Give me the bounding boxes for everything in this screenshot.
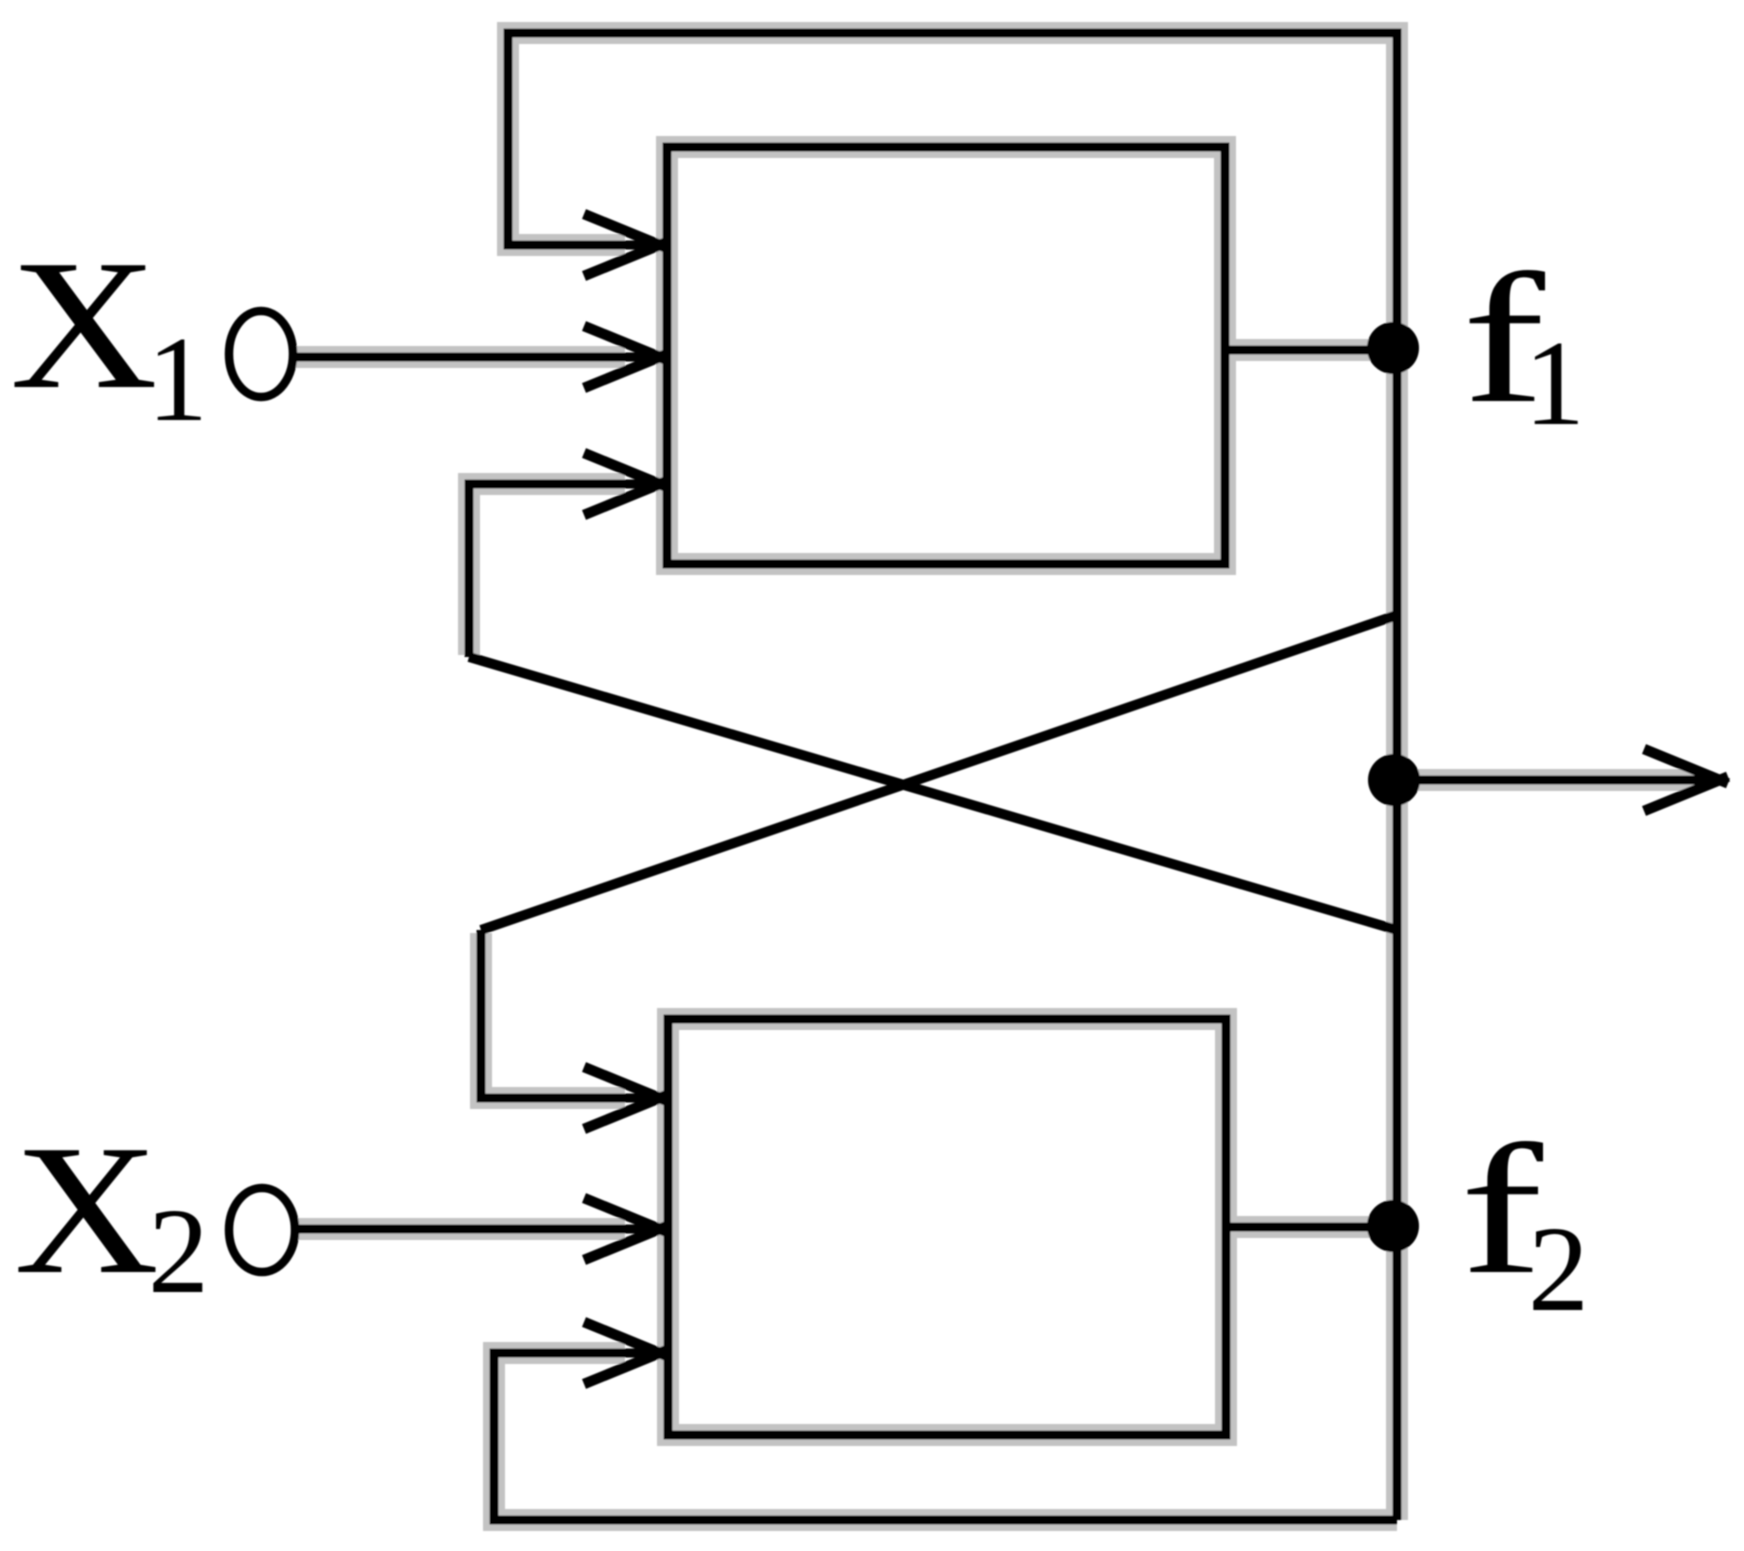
svg-text:1: 1 [147, 312, 208, 447]
box U1 gray underlay [667, 147, 1225, 564]
label X1 [10, 222, 158, 427]
arrowhead U2 input 2 (X2) [584, 1198, 668, 1232]
svg-text:X: X [10, 222, 158, 427]
node f1 junction dot [1367, 322, 1419, 374]
wire: U1 input 3 elbow [469, 484, 656, 657]
box U1 [667, 147, 1225, 564]
wire gray underlay: f2 output link [1226, 1216, 1397, 1238]
wire gray underlay: X1 input shaft [294, 346, 625, 368]
wire: main vertical bus on right [1393, 33, 1402, 1520]
wire: elbow into U2 input 1 [481, 930, 656, 1098]
arrowhead U2 input 1 [584, 1067, 668, 1101]
wire: f1 output link [1224, 346, 1397, 355]
wire: top feedback loop f1 to U1 input 1 [508, 33, 1397, 245]
box U2 [668, 1019, 1226, 1435]
svg-text:X: X [14, 1106, 159, 1313]
wire: X2 input shaft [297, 1225, 656, 1234]
wire gray underlay: bottom feedback loop into U2 input 3 [494, 1353, 1397, 1520]
arrowhead U1 input 1 [584, 214, 668, 248]
terminal circle X2 [229, 1188, 295, 1272]
wire: bottom feedback loop into U2 input 3 [494, 1353, 1397, 1520]
label f1 [1462, 235, 1546, 441]
wire gray underlay: top feedback loop from f1 line down to box U1 input 1 [508, 33, 1397, 245]
label X2 [14, 1106, 159, 1313]
wire gray underlay: f1 output link [1224, 339, 1397, 361]
svg-text:2: 2 [1528, 1202, 1589, 1337]
wire gray underlay: X2 input shaft [297, 1218, 625, 1240]
wire gray underlay: main vertical bus on right [1386, 33, 1408, 1520]
arrowhead system output [1644, 749, 1728, 783]
arrowhead U1 input 2 (X1) [584, 326, 668, 360]
arrowhead U2 input 3 [584, 1322, 668, 1356]
svg-text:1: 1 [1524, 316, 1585, 451]
label f2 [1460, 1106, 1544, 1312]
wire gray underlay: U1 input 3 elbow [469, 484, 625, 655]
wire: cross diagonal from U1 side down to vertical bus (f2 tap) [469, 657, 1397, 930]
wire: system output arrow shaft [1397, 776, 1716, 785]
wire: f2 output link [1226, 1223, 1397, 1232]
node f2 junction dot [1367, 1200, 1419, 1252]
box U2 gray underlay [668, 1019, 1226, 1435]
node output junction dot [1368, 754, 1420, 806]
arrowhead U1 input 3 [584, 453, 668, 487]
svg-text:2: 2 [148, 1184, 209, 1319]
wire: cross diagonal from vertical bus (f1 tap) down to U2 side [481, 615, 1397, 930]
wire gray underlay: elbow from cross wire into U2 input 1 [481, 933, 625, 1098]
terminal circle X1 [229, 311, 293, 397]
wire: X1 input shaft [294, 353, 656, 362]
wire gray underlay: system output arrow shaft [1397, 769, 1700, 791]
